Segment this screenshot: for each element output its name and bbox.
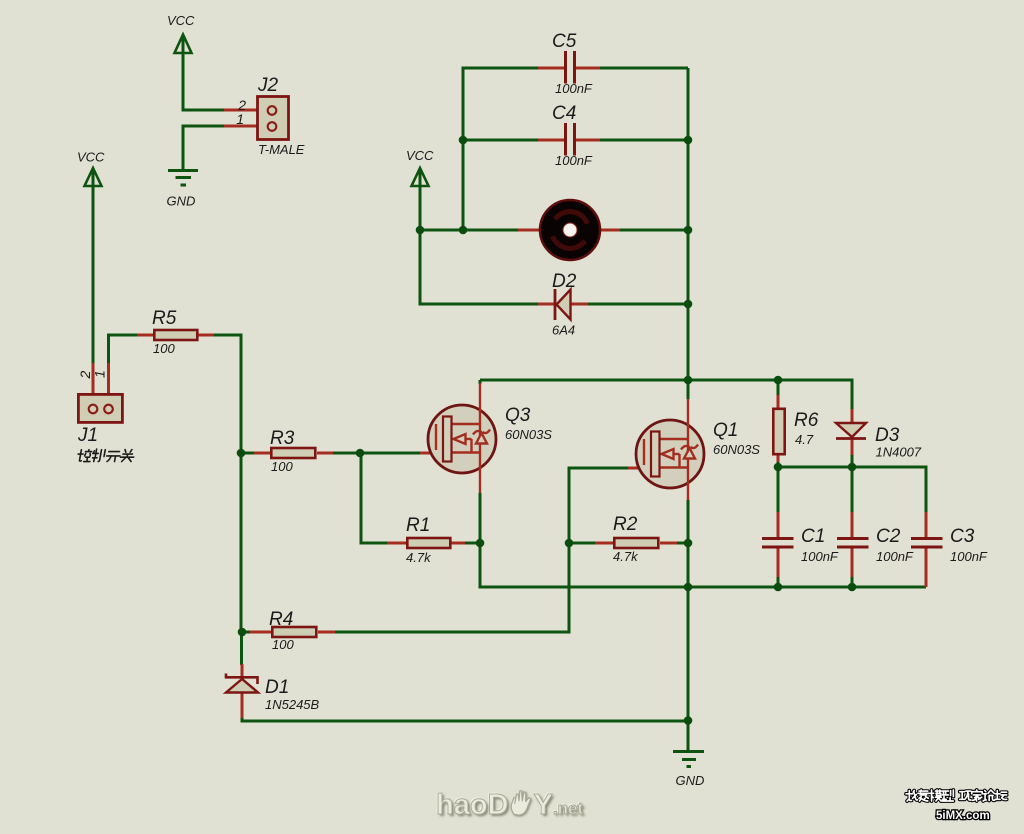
svg-text:C2: C2 [876,526,901,547]
svg-text:R4: R4 [269,609,293,630]
svg-text:D1: D1 [265,677,289,698]
svg-text:1N5245B: 1N5245B [265,697,320,712]
svg-text:R2: R2 [613,514,638,535]
svg-text:J1: J1 [77,425,98,446]
svg-text:R6: R6 [794,410,819,431]
svg-text:60N03S: 60N03S [505,427,552,442]
svg-text:100nF: 100nF [801,549,839,564]
svg-text:C5: C5 [552,31,577,52]
svg-text:VCC: VCC [406,148,434,163]
svg-text:R5: R5 [152,308,177,329]
svg-text:1N4007: 1N4007 [876,445,922,460]
svg-text:Q3: Q3 [505,405,531,426]
svg-text:100: 100 [272,637,294,652]
svg-text:6A4: 6A4 [552,323,575,338]
svg-text:C4: C4 [552,103,576,124]
svg-text:GND: GND [676,773,705,788]
svg-text:5iMX.com: 5iMX.com [936,810,990,822]
svg-text:R3: R3 [270,428,295,449]
svg-text:GND: GND [167,194,196,209]
svg-text:1: 1 [236,111,244,127]
svg-text:100nF: 100nF [555,81,593,96]
svg-text:T-MALE: T-MALE [258,142,305,157]
svg-text:C3: C3 [950,526,975,547]
svg-text:100: 100 [271,459,293,474]
svg-text:4.7: 4.7 [795,432,814,447]
svg-text:60N03S: 60N03S [713,442,760,457]
svg-text:100nF: 100nF [950,549,988,564]
svg-text:VCC: VCC [77,150,105,165]
svg-text:100: 100 [153,341,175,356]
svg-text:D3: D3 [875,425,900,446]
svg-text:C1: C1 [801,526,825,547]
svg-text:VCC: VCC [167,13,195,28]
svg-text:100nF: 100nF [876,549,914,564]
svg-text:Q1: Q1 [713,420,738,441]
svg-text:100nF: 100nF [555,153,593,168]
svg-text:1: 1 [92,370,108,378]
svg-text:J2: J2 [257,75,279,96]
svg-text:R1: R1 [406,515,430,536]
svg-text:4.7k: 4.7k [613,549,639,564]
svg-text:4.7k: 4.7k [406,550,432,565]
svg-text:D2: D2 [552,271,577,292]
